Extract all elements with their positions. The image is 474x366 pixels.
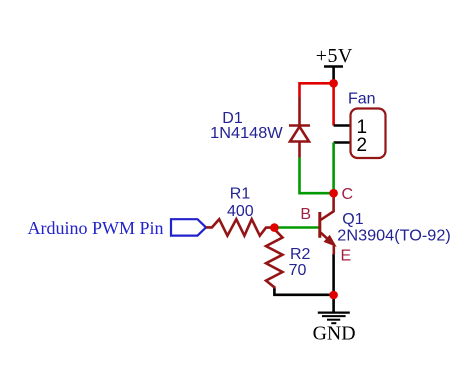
svg-text:400: 400 <box>227 203 254 220</box>
svg-text:R1: R1 <box>230 185 251 202</box>
svg-text:2N3904(TO-92): 2N3904(TO-92) <box>337 227 451 244</box>
svg-text:70: 70 <box>289 262 307 279</box>
svg-text:2: 2 <box>357 135 368 156</box>
svg-text:1N4148W: 1N4148W <box>210 125 283 142</box>
svg-text:R2: R2 <box>290 246 311 263</box>
svg-text:GND: GND <box>313 323 356 345</box>
svg-text:Arduino PWM Pin: Arduino PWM Pin <box>28 218 164 238</box>
svg-text:+5V: +5V <box>316 45 353 67</box>
svg-text:B: B <box>300 206 311 223</box>
svg-text:C: C <box>342 186 354 203</box>
svg-text:Fan: Fan <box>348 90 376 107</box>
svg-text:E: E <box>341 247 352 264</box>
svg-text:Q1: Q1 <box>342 211 363 228</box>
